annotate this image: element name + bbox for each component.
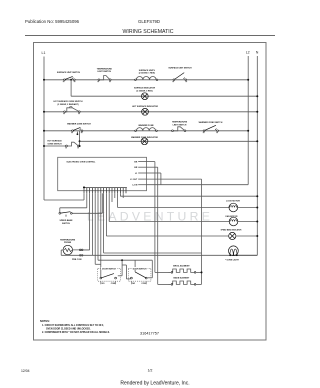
svg-text:HOT SURFACE: HOT SURFACE: [47, 140, 62, 143]
svg-text:L1 OUT: L1 OUT: [130, 179, 138, 181]
svg-text:(2 3000W, 1 RES): (2 3000W, 1 RES): [139, 73, 155, 75]
svg-text:DOOR SWITCH: DOOR SWITCH: [102, 269, 116, 271]
svg-text:SURFACE INDICATOR: SURFACE INDICATOR: [134, 87, 156, 90]
svg-text:L1: L1: [135, 173, 138, 175]
svg-text:WIRING SCHEMATIC: WIRING SCHEMATIC: [123, 29, 174, 35]
svg-text:COM: COM: [141, 283, 146, 285]
svg-text:LOCK MOTOR: LOCK MOTOR: [226, 201, 240, 203]
svg-text:Rendered by LeadVenture, Inc.: Rendered by LeadVenture, Inc.: [120, 381, 189, 387]
svg-text:SWITCH: SWITCH: [62, 223, 70, 225]
svg-text:BROIL ELEMENT: BROIL ELEMENT: [173, 266, 190, 268]
svg-text:N: N: [256, 51, 259, 55]
svg-text:BAKE ELEMENT: BAKE ELEMENT: [174, 277, 191, 280]
svg-text:PROBE: PROBE: [64, 242, 72, 244]
svg-text:SURFACE UNITS: SURFACE UNITS: [139, 69, 156, 72]
svg-text:BK: BK: [134, 162, 137, 164]
svg-text:NO: NO: [102, 283, 105, 285]
svg-text:(2 3000W, 2 RADIANT): (2 3000W, 2 RADIANT): [57, 103, 78, 106]
svg-text:SPEED BAKE: SPEED BAKE: [59, 219, 73, 222]
svg-text:L2 IN: L2 IN: [132, 185, 137, 187]
svg-text:NOTES:: NOTES:: [40, 319, 50, 323]
svg-text:GLEFS79D: GLEFS79D: [138, 19, 160, 24]
svg-text:Publication No: 5995425096: Publication No: 5995425096: [25, 19, 80, 24]
svg-text:12/04: 12/04: [21, 369, 30, 373]
svg-text:NO: NO: [132, 283, 135, 285]
svg-text:WARMER ZONE SWITCH: WARMER ZONE SWITCH: [67, 123, 91, 126]
svg-text:COM: COM: [111, 283, 116, 285]
svg-text:(2 3000W, 1 RES): (2 3000W, 1 RES): [136, 90, 152, 92]
svg-text:SPEED BAKE INDICATOR: SPEED BAKE INDICATOR: [221, 229, 242, 232]
svg-text:L1: L1: [42, 51, 46, 55]
svg-text:OVEN SWITCH: OVEN SWITCH: [47, 143, 62, 145]
svg-text:BR: BR: [134, 167, 137, 169]
svg-text:1/2: 1/2: [148, 369, 153, 373]
svg-text:ELECTRONIC OVEN CONTROL: ELECTRONIC OVEN CONTROL: [67, 161, 97, 163]
svg-text:TEMPERATURE: TEMPERATURE: [97, 68, 113, 71]
svg-text:PRB COM: PRB COM: [72, 259, 82, 261]
svg-text:1. CIRCUIT SHOWN WITH ALL CON: 1. CIRCUIT SHOWN WITH ALL CONTROLS SET T…: [42, 324, 104, 327]
svg-text:LIMIT SWITCH: LIMIT SWITCH: [173, 124, 187, 126]
svg-text:HOT SURFACE OVEN SWITCH: HOT SURFACE OVEN SWITCH: [53, 100, 83, 103]
svg-text:SURFACE UNIT SWITCH: SURFACE UNIT SWITCH: [57, 71, 81, 74]
svg-text:316417757: 316417757: [140, 331, 159, 335]
svg-text:DOOR SWITCH: DOOR SWITCH: [133, 269, 147, 271]
svg-text:OVEN DOOR CLOSED AND UNLOCKED.: OVEN DOOR CLOSED AND UNLOCKED.: [46, 328, 91, 331]
svg-text:2. COMPONENTS WITH * DO NOT: 2. COMPONENTS WITH * DO NOT APPEAR ON AL…: [42, 331, 110, 334]
svg-text:WARMER ZONE INDICATOR: WARMER ZONE INDICATOR: [131, 136, 158, 139]
svg-text:TEMPERATURE: TEMPERATURE: [60, 238, 76, 241]
svg-text:HOT SURFACE INDICATOR: HOT SURFACE INDICATOR: [132, 105, 158, 108]
svg-text:LIMIT SWITCH: LIMIT SWITCH: [97, 71, 111, 73]
svg-text:L2: L2: [246, 51, 250, 55]
svg-text:* OVEN LIGHT: * OVEN LIGHT: [225, 259, 239, 261]
svg-text:SURFACE UNIT SWITCH: SURFACE UNIT SWITCH: [168, 67, 192, 70]
svg-text:TEMPERATURE: TEMPERATURE: [172, 121, 188, 124]
svg-text:WARMER ZONE SWITCH: WARMER ZONE SWITCH: [199, 121, 223, 124]
svg-text:WARMER ZONE: WARMER ZONE: [138, 124, 154, 127]
